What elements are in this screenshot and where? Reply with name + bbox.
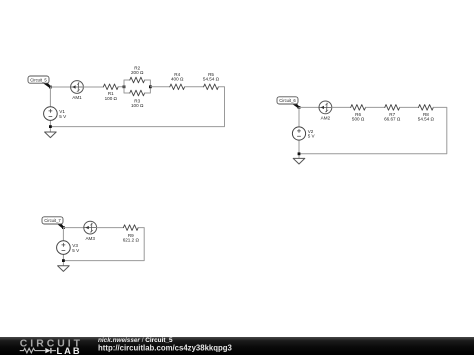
resistor R6 (351, 105, 366, 111)
resistor R2 (130, 77, 145, 83)
svg-text:Circuit_6: Circuit_6 (279, 98, 296, 103)
label R6 value 500 ohm (352, 112, 365, 122)
svg-text:AM2: AM2 (321, 116, 331, 121)
ground 3 (58, 266, 70, 272)
voltage source V1 (44, 107, 58, 121)
resistor R8 (419, 105, 434, 111)
resistor R7 (385, 105, 400, 111)
node flag Circuit_5 (28, 76, 51, 88)
ammeter AM1 (71, 81, 84, 94)
label V2 value 5 V (308, 129, 316, 139)
footer bar (0, 337, 474, 355)
junction node E (298, 106, 301, 109)
node flag Circuit_7 (42, 217, 64, 228)
resistor R5 (204, 84, 219, 90)
resistor R1 (103, 84, 118, 90)
wire right side down and bottom 3 (63, 228, 144, 261)
wire V2 branch (298, 107, 300, 158)
svg-text:66.67 Ω: 66.67 Ω (384, 116, 401, 121)
svg-text:100 Ω: 100 Ω (105, 96, 118, 101)
logo CIRCUIT (20, 339, 83, 350)
label R8 value 54.54 ohm (418, 112, 435, 122)
svg-text:AM3: AM3 (85, 236, 95, 241)
junction C (149, 85, 152, 88)
svg-text:5 V: 5 V (59, 114, 67, 119)
wire (150, 86, 169, 88)
logo diode (45, 348, 56, 353)
label AM1 (72, 95, 82, 100)
ammeter AM3 (84, 221, 97, 234)
wire parallel branch right (145, 80, 151, 93)
junction B (123, 85, 126, 88)
ground 2 (293, 158, 305, 164)
wire (63, 227, 83, 229)
junction node A (49, 86, 52, 89)
label V3 value 5 V (72, 243, 80, 253)
svg-text:100 Ω: 100 Ω (131, 103, 144, 108)
svg-text:5 V: 5 V (308, 134, 316, 139)
junction F (298, 152, 301, 155)
resistor R3 (130, 90, 145, 96)
svg-text:200 Ω: 200 Ω (131, 70, 144, 75)
voltage source V3 (57, 241, 71, 255)
wire (366, 106, 385, 108)
svg-text:Circuit_5: Circuit_5 (30, 77, 47, 82)
wire V3 branch (62, 228, 64, 266)
voltage source V2 (292, 127, 305, 140)
logo LAB (57, 346, 82, 355)
label R5 value 54.54 ohm (203, 72, 220, 82)
ammeter AM2 (319, 101, 332, 114)
svg-text:LAB: LAB (57, 346, 82, 355)
junction H (62, 259, 65, 262)
ground (45, 132, 57, 138)
junction node G (62, 226, 65, 229)
logo resistor zigzag (20, 348, 46, 353)
svg-text:54.54 Ω: 54.54 Ω (418, 116, 435, 121)
label AM3 (85, 236, 95, 241)
wire (332, 106, 351, 108)
svg-text:400 Ω: 400 Ω (171, 77, 184, 82)
svg-text:Circuit_7: Circuit_7 (44, 218, 61, 223)
wire (83, 86, 103, 88)
node flag Circuit_6 (277, 97, 300, 108)
wire (50, 86, 70, 88)
junction D (49, 125, 52, 128)
wire V1 branch (49, 87, 51, 132)
svg-text:621.2 Ω: 621.2 Ω (123, 238, 140, 243)
wire (185, 86, 204, 88)
svg-text:http://circuitlab.com/cs4zy38k: http://circuitlab.com/cs4zy38kkqpg3 (98, 343, 233, 352)
footer url text (98, 343, 233, 352)
svg-text:AM1: AM1 (72, 95, 82, 100)
resistor R4 (170, 84, 185, 90)
label AM2 (321, 116, 331, 121)
footer title text (98, 337, 173, 344)
svg-text:500 Ω: 500 Ω (352, 116, 365, 121)
svg-text:54.54 Ω: 54.54 Ω (203, 77, 220, 82)
wire (299, 106, 319, 108)
wire parallel branch left (124, 80, 130, 93)
wire (400, 106, 419, 108)
label R3 value 100 ohm (131, 99, 144, 109)
resistor R9 (123, 225, 138, 231)
label R4 value 400 ohm (171, 72, 184, 82)
wire (118, 86, 124, 88)
wire right side down and bottom (50, 87, 224, 127)
label R9 value 621.2 ohm (123, 233, 140, 243)
svg-text:5 V: 5 V (72, 248, 80, 253)
label V1 value 5 V (59, 109, 67, 119)
label R1 value 100 ohm (105, 91, 118, 101)
wire right side down and bottom 2 (299, 107, 447, 153)
label R2 value 200 ohm (131, 65, 144, 75)
label R7 value 66.67 ohm (384, 112, 401, 122)
wire (97, 227, 124, 229)
